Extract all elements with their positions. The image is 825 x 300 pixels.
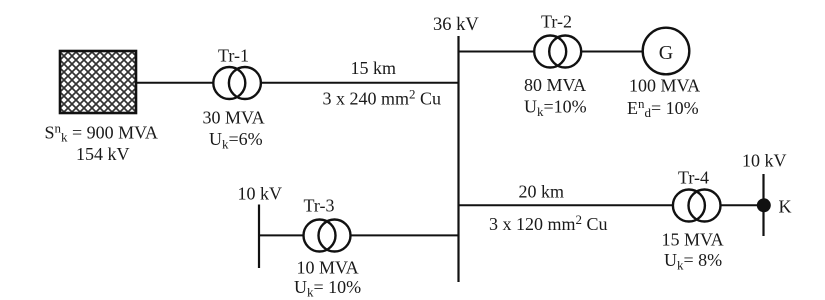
wire Tr-4 to node K [721, 204, 759, 206]
svg-text:80 MVA: 80 MVA [524, 75, 586, 95]
svg-text:3 x 240 mm2 Cu: 3 x 240 mm2 Cu [323, 87, 442, 109]
svg-text:Tr-4: Tr-4 [678, 168, 709, 188]
bus 36 kV (vertical) [457, 36, 459, 282]
node K (fault point, filled dot) [757, 198, 771, 212]
svg-text:10 kV: 10 kV [742, 151, 787, 171]
svg-text:30 MVA: 30 MVA [203, 108, 265, 128]
svg-text:Uk= 8%: Uk= 8% [664, 250, 722, 273]
svg-text:End= 10%: End= 10% [627, 96, 699, 120]
svg-text:K: K [779, 197, 792, 217]
wire bus to Tr-4 (20 km line) [459, 204, 674, 206]
svg-text:36 kV: 36 kV [433, 15, 479, 35]
wire Tr-3 to bus [350, 234, 458, 236]
svg-text:Uk=10%: Uk=10% [524, 97, 587, 120]
wire bus to Tr-2 [459, 51, 536, 53]
svg-text:15 km: 15 km [351, 58, 397, 78]
wire Tr-1 to 36kV bus (15 km line) [261, 82, 459, 84]
wire Tr-2 to generator [581, 51, 643, 53]
transformer Tr-1 [213, 67, 261, 99]
wire source to Tr-1 [136, 82, 214, 84]
svg-text:100 MVA: 100 MVA [629, 76, 700, 96]
svg-text:Uk= 10%: Uk= 10% [294, 277, 361, 300]
svg-text:Tr-3: Tr-3 [304, 196, 335, 216]
svg-text:Tr-2: Tr-2 [541, 12, 572, 32]
svg-text:10 kV: 10 kV [238, 184, 283, 204]
network source S (hatched square) [60, 51, 136, 113]
transformer Tr-2 [534, 36, 581, 68]
svg-text:3 x 120 mm2 Cu: 3 x 120 mm2 Cu [489, 212, 608, 234]
generator U1 (G) [643, 28, 690, 75]
bus 10 kV at K (vertical) [762, 174, 764, 236]
svg-text:10 MVA: 10 MVA [297, 258, 359, 278]
svg-text:20 km: 20 km [519, 182, 565, 202]
svg-text:Uk=6%: Uk=6% [209, 129, 263, 152]
svg-text:G: G [659, 42, 673, 64]
svg-text:154 kV: 154 kV [76, 144, 130, 164]
wire stub to Tr-3 [259, 234, 304, 236]
node 10 kV stub (vertical, lower-left) [258, 205, 260, 269]
transformer Tr-3 [304, 220, 351, 252]
transformer Tr-4 [673, 190, 721, 222]
svg-text:Tr-1: Tr-1 [218, 46, 249, 66]
svg-text:15 MVA: 15 MVA [662, 230, 724, 250]
